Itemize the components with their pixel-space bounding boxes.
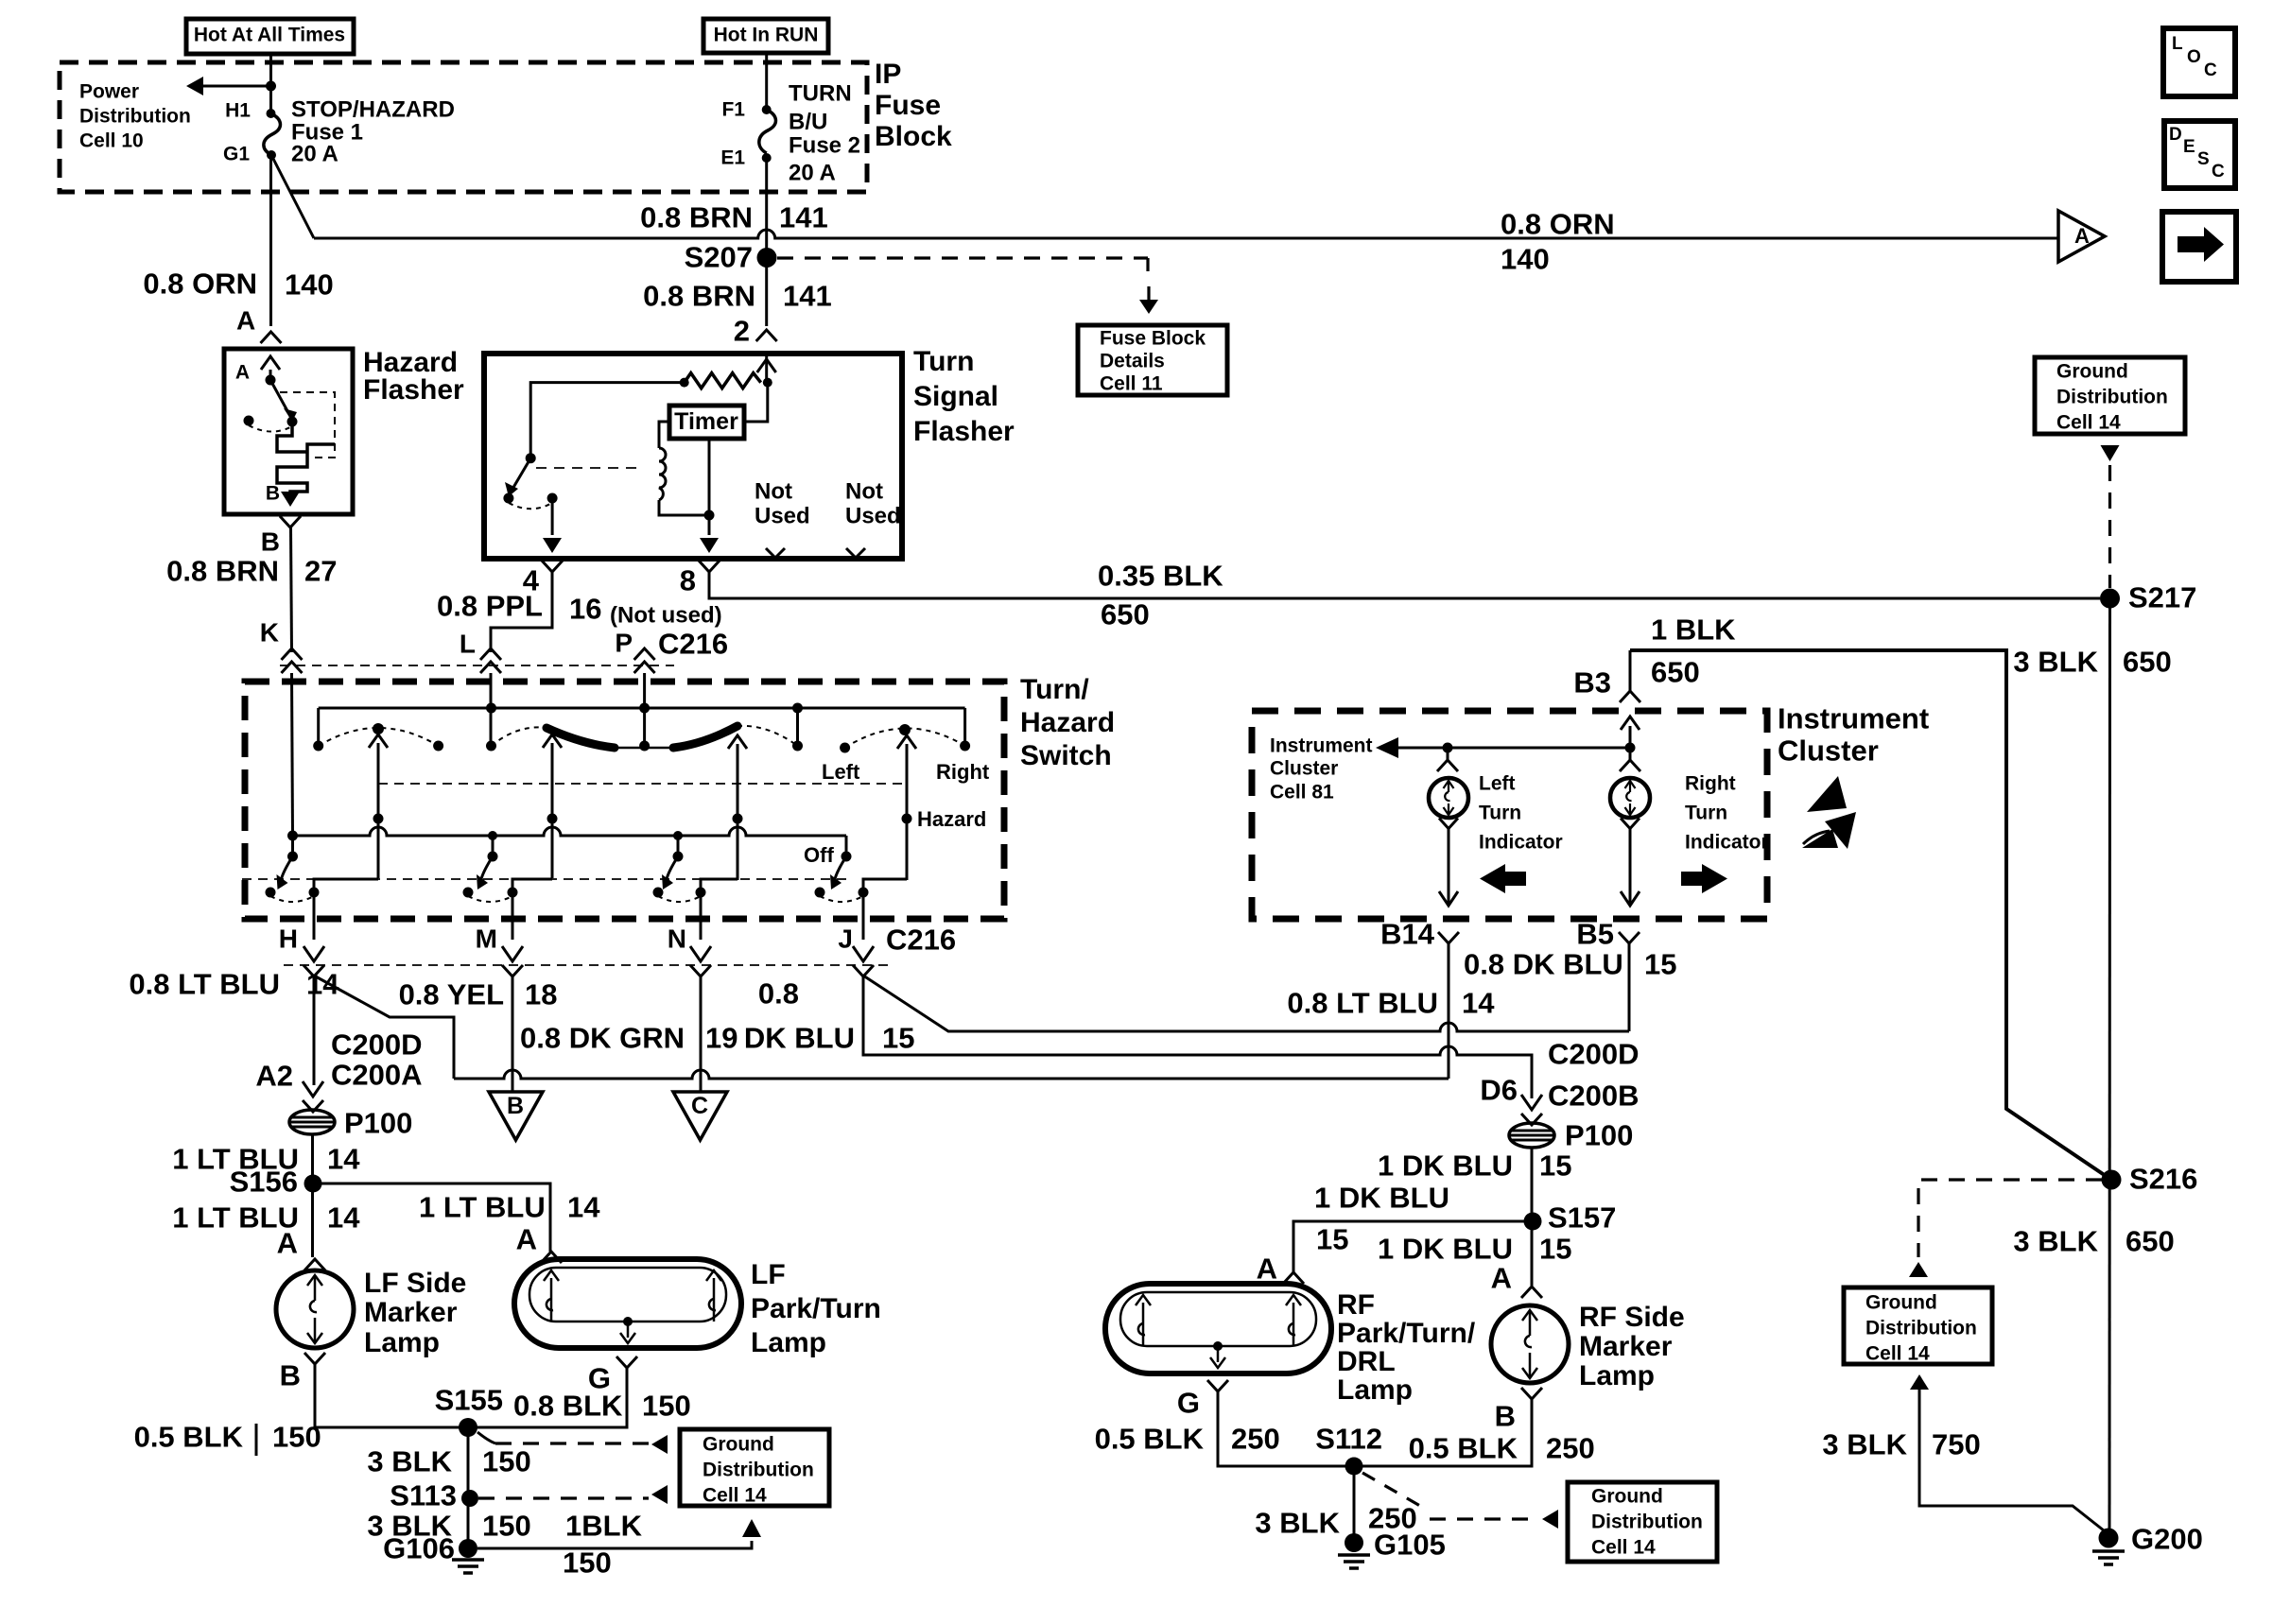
svg-text:0.8 BRN: 0.8 BRN [640, 201, 753, 234]
svg-text:(Not used): (Not used) [610, 603, 722, 629]
svg-text:G: G [1177, 1387, 1200, 1420]
right main ground bus 3 BLK 650 [2108, 598, 2112, 1538]
svg-text:150: 150 [563, 1546, 612, 1580]
svg-text:Power: Power [79, 80, 139, 102]
dashed reference S155 to ground distribution [477, 1432, 495, 1443]
svg-text:RF Side: RF Side [1579, 1302, 1685, 1333]
IP Fuse Block dashed outline [60, 62, 867, 192]
svg-text:P: P [615, 628, 633, 657]
svg-text:Used: Used [845, 504, 901, 529]
dashed arc right of thick contact [737, 726, 798, 746]
wire 0.8 LT BLU 14 from B14 to bus [1448, 943, 1450, 1079]
legend box DESC [2164, 121, 2235, 188]
svg-text:TURN: TURN [789, 81, 852, 107]
svg-text:16: 16 [569, 593, 601, 626]
svg-text:Distribution: Distribution [1591, 1511, 1703, 1532]
svg-text:C: C [2212, 162, 2225, 181]
wire S156 branch right to LF park lamp [313, 1183, 550, 1252]
wire 0.8 DK BLU 15 from B5 to bus [1628, 943, 1631, 1031]
left arrow icon [1503, 872, 1526, 886]
svg-text:Not: Not [755, 479, 792, 505]
switch top rail [319, 707, 965, 710]
switch arm shaft 1 with up arrow [377, 743, 380, 878]
hazard flasher switch arm [266, 375, 276, 386]
svg-text:Cell 11: Cell 11 [1100, 372, 1163, 394]
fuse F1 STOP/HAZARD Fuse 1 20A [267, 109, 276, 118]
terminal 4 wire with down arrow [551, 498, 554, 535]
svg-text:Park/Turn: Park/Turn [751, 1293, 881, 1324]
dashed wiper arc unit1 [319, 728, 439, 746]
svg-text:0.5 BLK: 0.5 BLK [1409, 1432, 1518, 1465]
svg-text:1 DK BLU: 1 DK BLU [1378, 1149, 1513, 1183]
svg-text:Marker: Marker [364, 1297, 458, 1328]
hazard flasher resistor element [277, 425, 335, 499]
svg-text:S216: S216 [2129, 1163, 2197, 1196]
wire resistor to switch pivot [530, 383, 685, 458]
grommet P100 left [289, 1110, 335, 1134]
power label box: Hot At All Times [186, 19, 354, 54]
svg-text:Left: Left [822, 760, 860, 784]
svg-text:0.8: 0.8 [758, 977, 799, 1011]
lamp LF Park/Turn [514, 1259, 741, 1348]
svg-text:15: 15 [1316, 1223, 1348, 1256]
dashed reference from S216 to ground cell [1918, 1180, 2102, 1257]
svg-text:Distribution: Distribution [1865, 1317, 1977, 1339]
svg-text:G105: G105 [1374, 1529, 1446, 1562]
svg-text:Turn/: Turn/ [1020, 674, 1089, 705]
svg-text:Hot At All Times: Hot At All Times [194, 24, 345, 45]
wire S156 down to LF side marker [311, 1183, 314, 1257]
ESD sensitive symbol [1807, 776, 1847, 812]
svg-text:C200D: C200D [331, 1028, 423, 1062]
svg-text:1 DK BLU: 1 DK BLU [1314, 1182, 1449, 1215]
svg-text:150: 150 [642, 1390, 691, 1423]
svg-text:Flasher: Flasher [363, 374, 464, 406]
fuse TURN B/U Fuse 2 20A [762, 105, 772, 114]
svg-text:K: K [260, 617, 279, 647]
arrow to instrument cluster cell [1397, 747, 1630, 750]
hazard flasher dashed contact arc [249, 425, 290, 432]
lamp RF Side Marker [1491, 1305, 1569, 1383]
reference box Ground Distribution Cell 14 (left) [680, 1429, 829, 1506]
svg-text:S112: S112 [1315, 1423, 1382, 1456]
svg-text:150: 150 [482, 1445, 531, 1478]
contact dots upper row [313, 741, 323, 752]
svg-text:S113: S113 [390, 1479, 457, 1512]
svg-text:0.8 DK BLU: 0.8 DK BLU [1464, 948, 1623, 981]
svg-text:20 A: 20 A [291, 142, 338, 167]
switch pole 4 contacts [815, 888, 825, 898]
reference box Fuse Block Details Cell 11 [1078, 325, 1227, 395]
pin 8 connector [699, 561, 720, 572]
svg-text:250: 250 [1546, 1432, 1595, 1465]
svg-text:650: 650 [2126, 1225, 2175, 1258]
wire 1 BLK 650 from B3 [1630, 650, 2111, 1180]
resistor inside turn signal flasher [680, 378, 689, 388]
switch pole 4 jog wire [863, 879, 907, 892]
terminal A arrow inside hazard flasher [269, 370, 272, 380]
svg-text:E: E [2183, 137, 2195, 157]
svg-text:18: 18 [525, 978, 557, 1011]
svg-text:S157: S157 [1548, 1201, 1616, 1235]
svg-text:C216: C216 [886, 924, 956, 957]
ground G106 [459, 1539, 477, 1558]
wire 0.35 BLK 650 to S217 [709, 572, 2100, 598]
svg-text:0.8 DK GRN: 0.8 DK GRN [520, 1022, 685, 1055]
svg-text:M: M [476, 924, 497, 953]
switch pole 2 contacts [463, 888, 474, 898]
svg-text:Fuse 2: Fuse 2 [789, 133, 860, 159]
svg-text:141: 141 [783, 280, 832, 313]
diagonal wire G1 to ORN bus [272, 157, 314, 238]
connector line C216 dashed at switch top [280, 665, 674, 666]
apex contact dots [373, 723, 384, 734]
svg-text:B/U: B/U [789, 110, 827, 135]
svg-text:C216: C216 [658, 628, 728, 661]
hazard flasher contact dots [244, 416, 254, 426]
svg-text:14: 14 [306, 968, 339, 1001]
svg-text:Not: Not [845, 479, 883, 505]
wire P100 to S157 1 DK BLU 15 [1531, 1148, 1534, 1221]
off-page triangle B [489, 1092, 543, 1140]
splice S112 [1345, 1458, 1363, 1476]
terminal G of LF park lamp [616, 1356, 637, 1368]
terminal 2 arrow inside [765, 354, 768, 383]
wire M to triangle B [512, 976, 514, 1092]
wire S155 to S113 3 BLK 150 [467, 1427, 470, 1498]
svg-text:Indicator: Indicator [1479, 831, 1563, 853]
top rail end drops [317, 708, 320, 746]
timer box [669, 406, 744, 439]
svg-text:650: 650 [2123, 646, 2172, 679]
svg-text:140: 140 [285, 268, 334, 302]
wire 0.8 BRN 27 from hazard flasher to switch pin K [291, 527, 292, 652]
switch arm shaft 3 with up arrow [737, 744, 739, 880]
reference box Ground Distribution Cell 14 (top right) [2035, 357, 2185, 434]
svg-text:C: C [691, 1093, 708, 1119]
grommet P100 right [1509, 1123, 1554, 1148]
svg-text:1BLK: 1BLK [565, 1510, 643, 1543]
svg-text:14: 14 [327, 1143, 360, 1176]
wire 1BLK 150 from G106 to ground reference [477, 1541, 752, 1548]
svg-text:Ground: Ground [703, 1433, 774, 1455]
reference box Ground Distribution Cell 14 (bottom middle) [1568, 1482, 1717, 1562]
dashed reference wire S207 to Fuse Block Details [777, 256, 1148, 259]
wire E1 down to S207 [765, 158, 768, 326]
svg-text:S156: S156 [230, 1166, 298, 1199]
svg-text:Distribution: Distribution [79, 105, 191, 127]
dashed reference wire to S217 [2101, 445, 2120, 461]
svg-text:A: A [277, 1227, 298, 1260]
svg-text:Instrument: Instrument [1270, 734, 1373, 756]
switch pole 2 jog wire [512, 879, 552, 892]
off-page connector triangle A [2058, 211, 2105, 262]
svg-text:Turn: Turn [913, 346, 974, 377]
B3 arrow inside cluster [1629, 726, 1632, 748]
wire timer bottom to terminal 8 [708, 439, 711, 515]
coil [659, 422, 669, 448]
wire S112 to G105 3 BLK 250 [1353, 1466, 1356, 1543]
svg-text:Right: Right [1685, 772, 1736, 794]
right arrow icon [1681, 872, 1704, 886]
svg-text:E1: E1 [720, 147, 745, 168]
svg-text:650: 650 [1651, 656, 1700, 689]
svg-text:Used: Used [755, 504, 810, 529]
pin B14 connector [1438, 932, 1459, 943]
splice S157 [1524, 1213, 1542, 1231]
svg-text:15: 15 [1539, 1233, 1571, 1266]
svg-text:LF: LF [751, 1259, 786, 1290]
svg-text:A: A [2074, 224, 2090, 248]
wire 0.8 ORN 140 long bus to A triangle [314, 230, 2058, 238]
svg-text:B: B [280, 1359, 301, 1392]
mech dashed row upper [378, 783, 905, 785]
wire 3 BLK 750 to G200 [1910, 1374, 1929, 1390]
mechanical dashed link [536, 467, 643, 469]
pin B3 connector [1629, 650, 1632, 691]
svg-text:Hazard: Hazard [917, 807, 986, 831]
svg-text:S: S [2197, 149, 2210, 169]
svg-text:Cell 14: Cell 14 [1865, 1342, 1930, 1364]
off-page triangle C [673, 1092, 727, 1140]
svg-text:141: 141 [779, 201, 828, 234]
switch pole 1 contacts [266, 888, 276, 898]
svg-text:S155: S155 [435, 1384, 503, 1417]
wire pin K into switch [292, 673, 293, 836]
flasher dashed contact arc [509, 503, 550, 509]
switch pole 3 pivot and arm [677, 836, 680, 856]
wire S157 branch left to RF park lamp 1 DK BLU 15 [1293, 1221, 1533, 1272]
svg-text:0.8 BLK: 0.8 BLK [513, 1390, 623, 1423]
connector A2 C200 arrows [303, 1081, 323, 1097]
svg-text:N: N [668, 924, 686, 953]
svg-text:H1: H1 [225, 99, 251, 121]
svg-text:B: B [266, 482, 280, 504]
svg-text:0.8 BRN: 0.8 BRN [166, 555, 279, 588]
svg-text:Cell 14: Cell 14 [703, 1484, 767, 1506]
switch pole 2 pivot and arm [492, 836, 495, 856]
svg-text:C200B: C200B [1548, 1080, 1640, 1113]
splice S156 [304, 1175, 322, 1193]
ground G105 [1345, 1533, 1363, 1552]
svg-text:2: 2 [734, 315, 750, 348]
svg-text:Turn: Turn [1685, 802, 1727, 823]
svg-text:Cell 81: Cell 81 [1270, 781, 1334, 803]
terminal B connector below hazard flasher [280, 516, 301, 527]
svg-text:150: 150 [272, 1421, 321, 1454]
svg-text:Turn: Turn [1479, 802, 1521, 823]
svg-text:3 BLK: 3 BLK [2013, 646, 2098, 679]
wire H branch to C200D bus [314, 976, 454, 1079]
svg-text:250: 250 [1231, 1423, 1280, 1456]
svg-text:Lamp: Lamp [751, 1327, 826, 1358]
svg-text:L: L [2172, 34, 2183, 54]
terminal B of LF side marker [304, 1353, 325, 1364]
svg-text:P100: P100 [1565, 1119, 1633, 1152]
svg-text:19: 19 [705, 1022, 737, 1055]
connector D6 C200 arrows [1521, 1095, 1542, 1110]
svg-text:Block: Block [875, 121, 952, 152]
svg-text:Instrument: Instrument [1778, 702, 1929, 735]
svg-text:P100: P100 [344, 1107, 412, 1140]
wire N to triangle C [700, 976, 703, 1092]
svg-text:STOP/HAZARD: STOP/HAZARD [291, 97, 455, 123]
reference box Ground Distribution Cell 14 (bottom right) [1844, 1287, 1992, 1364]
svg-text:LF Side: LF Side [364, 1268, 466, 1299]
svg-text:Cell 14: Cell 14 [2056, 411, 2121, 433]
svg-text:B: B [1495, 1400, 1516, 1433]
svg-text:Cell 10: Cell 10 [79, 130, 144, 151]
svg-text:C: C [2204, 60, 2217, 80]
component box Instrument Cluster dashed [1252, 711, 1767, 919]
svg-text:G200: G200 [2131, 1523, 2203, 1556]
svg-text:Switch: Switch [1020, 740, 1112, 771]
dashed reference S112 to ground distribution [1362, 1473, 1427, 1510]
switch pole 3 jog wire [701, 879, 737, 892]
svg-text:B3: B3 [1573, 666, 1611, 700]
wire 0.35 BLK splice S217 [2100, 589, 2120, 609]
thick contact arc left [547, 728, 615, 748]
svg-text:750: 750 [1932, 1428, 1981, 1461]
wire S113 to G106 3 BLK 150 [467, 1498, 470, 1548]
lamp RF Park/Turn/DRL [1105, 1284, 1331, 1373]
svg-text:J: J [838, 924, 853, 953]
svg-text:DRL: DRL [1337, 1346, 1396, 1377]
wire 0.5 BLK 150 to S155 [315, 1364, 468, 1427]
switch arm shaft 2 with up arrow [551, 743, 554, 878]
svg-text:14: 14 [327, 1201, 360, 1235]
switch pole 1 pivot and arm [291, 836, 294, 856]
svg-text:3 BLK: 3 BLK [2013, 1225, 2098, 1258]
svg-text:14: 14 [1462, 987, 1495, 1020]
connector chevron into turn signal flasher [756, 330, 777, 341]
flasher switch arm [526, 453, 536, 463]
svg-text:20 A: 20 A [789, 161, 836, 186]
dashed arc left of thick contact [492, 727, 547, 746]
wire Hot In RUN down to fuse 2 [765, 53, 768, 110]
LF park lamp filaments [550, 1278, 553, 1322]
svg-text:A: A [235, 361, 250, 383]
svg-text:Details: Details [1100, 350, 1165, 371]
svg-text:S217: S217 [2128, 581, 2196, 614]
svg-text:A: A [236, 305, 255, 335]
svg-text:Ground: Ground [2056, 360, 2128, 382]
component box Turn Signal Flasher [484, 354, 902, 559]
svg-text:0.8 ORN: 0.8 ORN [143, 268, 257, 301]
svg-text:G1: G1 [223, 143, 250, 164]
svg-text:Lamp: Lamp [1579, 1360, 1655, 1391]
splice S113 [461, 1490, 478, 1507]
terminal 8 wire with down arrow [708, 515, 711, 535]
pin B5 connector [1619, 932, 1640, 943]
switch output wires to bottom edge [313, 892, 316, 940]
svg-text:0.8 LT BLU: 0.8 LT BLU [1287, 987, 1438, 1020]
svg-text:F1: F1 [721, 98, 745, 120]
legend box LOC [2163, 28, 2235, 96]
wire P100 to S156 [311, 1134, 314, 1183]
arrow to Power Distribution (left) [201, 85, 271, 88]
svg-text:Lamp: Lamp [1337, 1374, 1413, 1406]
svg-text:IP: IP [875, 59, 901, 90]
switch pole 1 jog wire [314, 879, 378, 892]
svg-text:15: 15 [882, 1022, 914, 1055]
wire pin L into switch [490, 673, 493, 746]
junction dot [266, 81, 276, 92]
wire G1 down to connector A [269, 155, 272, 326]
thick contact arc right [673, 726, 737, 748]
wire 0.8 PPL 16 to pin L [491, 572, 552, 652]
svg-text:0.35 BLK: 0.35 BLK [1098, 560, 1223, 593]
svg-text:3 BLK: 3 BLK [367, 1445, 452, 1478]
wire pin P into switch [643, 682, 646, 746]
switch arm shaft hazard with up arrow [906, 744, 909, 880]
svg-text:D: D [2169, 125, 2182, 145]
svg-text:14: 14 [567, 1191, 600, 1224]
dashed wiper arc hazard unit [845, 728, 965, 748]
svg-text:A2: A2 [255, 1060, 293, 1093]
mech dashed row lower [242, 878, 846, 880]
svg-text:S207: S207 [685, 241, 753, 274]
svg-text:A: A [1257, 1253, 1277, 1286]
svg-text:650: 650 [1101, 598, 1150, 631]
wire bus J to D6 [863, 976, 1532, 1098]
svg-text:G106: G106 [383, 1532, 455, 1565]
wire bus H to B14 (0.8 LT BLU 14) [454, 1070, 1449, 1079]
splice S155 [459, 1418, 477, 1437]
svg-text:Distribution: Distribution [703, 1459, 814, 1480]
svg-text:B: B [507, 1093, 524, 1119]
svg-text:A: A [1491, 1262, 1512, 1295]
wire 0.8 LT BLU 14 from H down to A2 [313, 976, 316, 1085]
wire from Hot At All Times into fuse block [269, 54, 272, 113]
svg-text:L: L [460, 629, 476, 658]
svg-text:Distribution: Distribution [2056, 386, 2168, 407]
thin link through P contact [615, 747, 673, 750]
terminal G of RF park lamp [1207, 1380, 1228, 1391]
svg-text:B5: B5 [1576, 918, 1614, 951]
svg-text:0.5 BLK: 0.5 BLK [134, 1421, 244, 1454]
svg-text:Park/Turn/: Park/Turn/ [1337, 1318, 1476, 1349]
svg-text:Cell 14: Cell 14 [1591, 1536, 1656, 1558]
svg-text:Cluster: Cluster [1778, 734, 1879, 768]
power label box: Hot In RUN [703, 19, 828, 53]
svg-text:Fuse Block: Fuse Block [1100, 327, 1206, 349]
svg-text:140: 140 [1501, 243, 1550, 276]
svg-text:Hazard: Hazard [1020, 707, 1115, 738]
svg-text:C200A: C200A [331, 1059, 423, 1092]
switch pole 3 contacts [653, 888, 664, 898]
svg-text:3 BLK: 3 BLK [1255, 1507, 1340, 1540]
svg-text:1 LT BLU: 1 LT BLU [419, 1191, 546, 1224]
svg-text:Marker: Marker [1579, 1331, 1673, 1362]
svg-text:15: 15 [1539, 1149, 1571, 1183]
svg-text:B: B [261, 527, 280, 556]
right turn indicator lamp [1629, 748, 1632, 760]
svg-text:0.8 BRN: 0.8 BRN [643, 280, 755, 313]
svg-text:Indicator: Indicator [1685, 831, 1769, 853]
svg-text:Cluster: Cluster [1270, 757, 1338, 779]
svg-text:H: H [279, 924, 298, 953]
svg-text:15: 15 [1644, 948, 1676, 981]
svg-text:Ground: Ground [1591, 1485, 1663, 1507]
wire 0.8 BLK 150 to S155 [468, 1368, 627, 1427]
flasher contact dots [503, 493, 513, 504]
switch lower rail [293, 827, 847, 836]
switch pole 4 pivot and arm [845, 836, 848, 856]
wire timer to resistor [744, 383, 768, 422]
svg-text:Signal: Signal [913, 381, 998, 412]
svg-text:DK BLU: DK BLU [744, 1022, 855, 1055]
